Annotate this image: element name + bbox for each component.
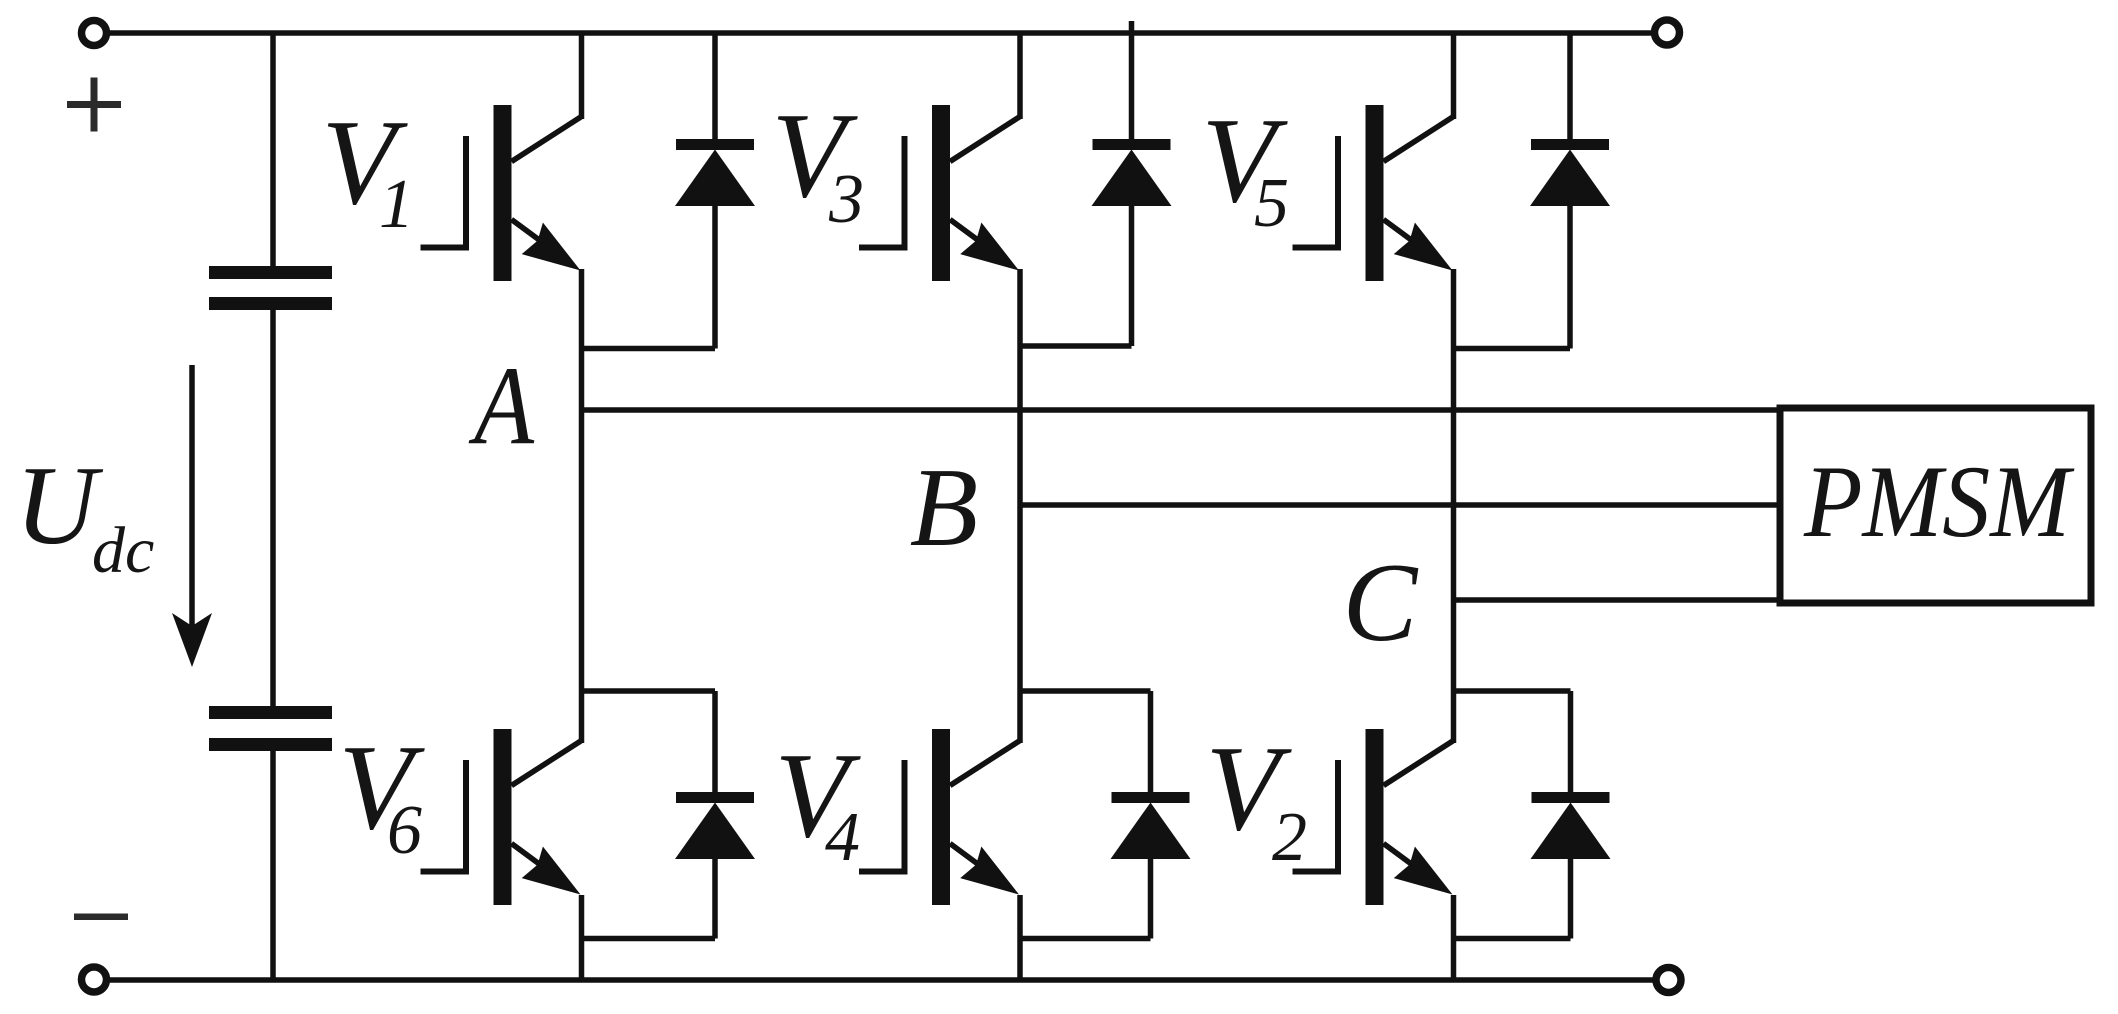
svg-text:1: 1 (379, 166, 414, 243)
svg-text:6: 6 (387, 792, 422, 869)
diode D4 (freewheel of V4) (1111, 792, 1191, 859)
wire: phase leg A, rail to V1 collector (579, 33, 585, 119)
svg-text:3: 3 (828, 161, 864, 238)
wire: D6 anode to V6 emitter connector (582, 936, 716, 942)
label V1 (322, 95, 415, 243)
svg-text:B: B (910, 446, 978, 570)
transistor V2 (IGBT, phase C low side) (1293, 729, 1454, 905)
diode D5 (freewheel of V5) (1530, 139, 1610, 206)
wire: DC-link bus, rail to C1 top plate (270, 33, 276, 266)
wire: negative DC rail (bottom) (110, 977, 1653, 983)
svg-text:C: C (1343, 541, 1419, 665)
terminal: bottom-right DC- (1656, 968, 1681, 993)
wire: phase A output to PMSM (582, 407, 1781, 413)
wire: D5 anode to V5 emitter connector (1454, 346, 1571, 352)
label V6 (339, 720, 426, 869)
arrow: Udc voltage reference arrow (172, 365, 212, 667)
label: minus sign of DC supply (74, 914, 128, 921)
label: Udc (15, 444, 154, 587)
wire: phase leg C, V2 emitter to bottom rail (1451, 895, 1457, 980)
wire: D3 cathode to top rail (with overshoot tick) (1129, 21, 1135, 141)
wire: D1 anode down (712, 205, 718, 349)
wire: phase leg A, V1 emitter through node A to V6 collector (579, 269, 585, 743)
PMSM motor box (1780, 408, 2091, 603)
diode D3 (freewheel of V3) (1092, 139, 1172, 206)
svg-text:PMSM: PMSM (1803, 445, 2075, 559)
svg-text:5: 5 (1254, 165, 1289, 242)
svg-text:A: A (468, 344, 535, 468)
capacitor C2 (lower DC-link) (209, 706, 332, 751)
label: plus sign of DC supply (67, 78, 121, 132)
transistor V5 (IGBT, phase C high side) (1293, 105, 1454, 281)
wire: D2 anode to V2 emitter connector (1454, 936, 1571, 942)
terminal: bottom-left DC- input (82, 967, 107, 992)
wire: D6 anode down (712, 858, 718, 939)
capacitor C1 (upper DC-link) (209, 266, 332, 310)
diode D6 (freewheel of V6) (675, 792, 755, 859)
wire: D2 anode down (1568, 858, 1574, 939)
wire: phase C output to PMSM (1454, 597, 1781, 603)
label V4 (775, 728, 862, 876)
wire: phase leg C, rail to V5 collector (1451, 33, 1457, 119)
wire: phase leg B, rail to V3 collector (1017, 33, 1023, 119)
terminal: top-left DC+ input (82, 21, 107, 46)
label V3 (772, 88, 865, 238)
svg-text:dc: dc (92, 514, 154, 587)
transistor V3 (IGBT, phase B high side) (859, 105, 1020, 281)
diode D2 (freewheel of V2) (1531, 792, 1611, 859)
wire: leg B to D4 cathode connector (1020, 688, 1151, 694)
wire: D4 cathode down to bar (1148, 691, 1154, 794)
wire: D5 cathode to top rail (1567, 33, 1573, 141)
wire: leg C to D2 cathode connector (1454, 688, 1571, 694)
transistor V1 (IGBT, phase A high side) (421, 105, 582, 281)
wire: D6 cathode down to bar (712, 691, 718, 794)
wire: phase leg C, V5 emitter through node C to V2 collector (1451, 269, 1457, 743)
wire: D4 anode down (1148, 858, 1154, 939)
wire: D2 cathode down to bar (1568, 691, 1574, 794)
wire: D3 anode to V3 emitter connector (1020, 343, 1132, 349)
transistor V4 (IGBT, phase B low side) (859, 729, 1020, 905)
wire: D1 anode to V1 emitter connector (582, 346, 716, 352)
wire: DC-link bus, C2 bottom plate to bottom rail (270, 751, 276, 980)
wire: phase leg B, V4 emitter to bottom rail (1017, 895, 1023, 980)
label V5 (1202, 93, 1290, 242)
transistor V6 (IGBT, phase A low side) (421, 729, 582, 905)
wire: positive DC rail (top) (110, 30, 1651, 36)
diode D1 (freewheel of V1) (675, 139, 755, 206)
label V2 (1206, 721, 1308, 876)
wire: D1 cathode to top rail (712, 33, 718, 141)
terminal: top-right DC+ (1655, 20, 1680, 45)
wire: D4 anode to V4 emitter connector (1020, 936, 1151, 942)
wire: D5 anode down (1567, 205, 1573, 349)
wire: DC-link bus, C1 bottom plate to C2 top plate (270, 310, 276, 706)
svg-text:4: 4 (825, 799, 860, 876)
svg-text:2: 2 (1272, 799, 1307, 876)
wire: phase leg B, V3 emitter through node B to V4 collector (1017, 269, 1023, 743)
wire: phase B output to PMSM (1020, 502, 1780, 508)
svg-text:U: U (15, 444, 103, 568)
wire: phase leg A, V6 emitter to bottom rail (579, 895, 585, 980)
wire: D3 anode down (1129, 205, 1135, 346)
wire: leg A to D6 cathode connector (582, 688, 716, 694)
